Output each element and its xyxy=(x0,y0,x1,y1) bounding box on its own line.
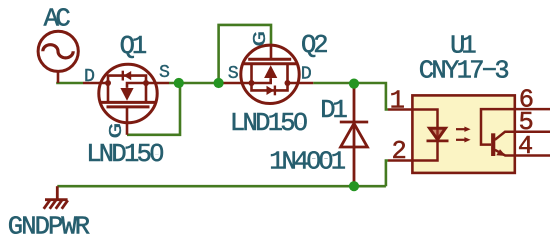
pin 2 xyxy=(388,159,412,162)
transistor Q1 xyxy=(83,64,169,135)
svg-text:CNY17−3: CNY17−3 xyxy=(419,56,509,85)
LED cathode bar xyxy=(427,139,449,142)
svg-text:LND150: LND150 xyxy=(230,109,307,138)
AC source xyxy=(38,31,78,83)
top rail with stubs xyxy=(108,76,146,103)
gate pin xyxy=(270,44,273,59)
pin D xyxy=(288,82,314,85)
wire Q2 gate loop xyxy=(219,25,271,83)
bulk arrow xyxy=(120,88,133,101)
LED anode path xyxy=(412,110,437,161)
junction dot internal S xyxy=(249,80,255,86)
optocoupler U1 body xyxy=(412,95,514,172)
svg-text:Q1: Q1 xyxy=(120,32,147,61)
channel bar xyxy=(101,101,156,104)
emitter to pin 4 xyxy=(495,150,550,156)
junction node D1 bottom xyxy=(349,181,359,191)
wire bottom GNDPWR rail xyxy=(57,185,386,188)
body diode triangle xyxy=(124,71,132,80)
light arrow lower xyxy=(456,139,466,141)
light arrowhead lower xyxy=(464,137,470,142)
svg-text:4: 4 xyxy=(518,132,532,161)
base line to pin 6 xyxy=(481,109,550,145)
transistor Q2 xyxy=(223,44,314,104)
svg-text:GNDPWR: GNDPWR xyxy=(8,213,90,241)
gate plate xyxy=(248,58,291,61)
emitter arrowhead xyxy=(496,149,506,156)
cathode bar xyxy=(340,121,368,124)
svg-text:AC: AC xyxy=(44,5,71,34)
junction node D1 top xyxy=(349,79,359,89)
body diode bar xyxy=(122,71,124,81)
gate plate xyxy=(107,105,150,108)
svg-text:2: 2 xyxy=(392,137,406,166)
pin 1 xyxy=(388,108,412,111)
svg-text:1N4001: 1N4001 xyxy=(269,148,346,177)
gate pin xyxy=(126,107,129,135)
wire AC to Q1 D xyxy=(56,82,83,85)
anode/cathode pin line xyxy=(353,84,356,186)
junction dot internal D xyxy=(105,80,111,86)
svg-text:S: S xyxy=(228,64,239,84)
ground GNDPWR xyxy=(44,186,68,209)
wire Q1 gate loop xyxy=(127,83,180,135)
body diode triangle xyxy=(267,86,275,95)
svg-text:G: G xyxy=(105,123,126,139)
junction dot internal D xyxy=(285,80,291,86)
phototransistor base bar xyxy=(491,133,495,156)
diode triangle xyxy=(341,123,368,147)
junction dot internal S xyxy=(143,80,149,86)
light arrow upper xyxy=(456,128,466,130)
wire Q2 D to U1 pin1 xyxy=(313,83,388,110)
S pin and bulk xyxy=(223,78,271,83)
junction node Q2 S xyxy=(214,78,224,88)
light arrowhead upper xyxy=(464,127,470,132)
channel bar xyxy=(242,62,297,65)
pin D xyxy=(83,82,108,85)
svg-text:D: D xyxy=(301,65,312,85)
body diode bar xyxy=(274,86,276,96)
bottom rail with stubs xyxy=(252,64,288,91)
svg-text:LND150: LND150 xyxy=(86,140,163,169)
S pin and bulk xyxy=(127,83,169,88)
svg-text:D: D xyxy=(84,67,95,87)
LED triangle xyxy=(430,128,446,139)
bulk arrow xyxy=(264,65,277,78)
wire U1 pin2 down xyxy=(386,161,388,187)
svg-text:G: G xyxy=(250,31,271,47)
junction node Q1 S xyxy=(174,78,184,88)
svg-text:D1: D1 xyxy=(320,96,347,125)
svg-text:S: S xyxy=(159,63,170,83)
wire Q1 S to Q2 S xyxy=(169,82,223,85)
collector to pin 5 xyxy=(495,132,550,140)
svg-text:Q2: Q2 xyxy=(301,31,327,60)
zero glyph patches xyxy=(155,150,159,154)
diode D1 xyxy=(340,84,368,186)
